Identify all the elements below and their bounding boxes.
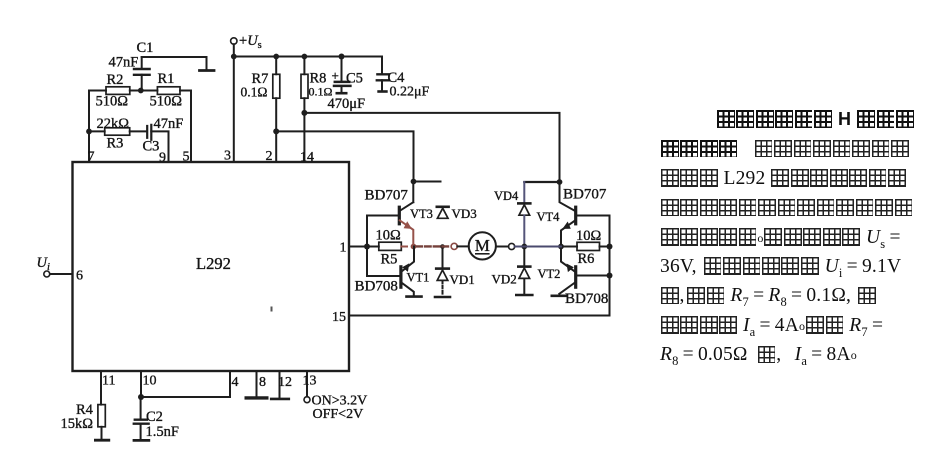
capacitor C1	[134, 57, 150, 91]
resistor R7	[273, 57, 280, 163]
svg-text:8: 8	[259, 375, 266, 390]
resistor R5	[367, 242, 407, 250]
TEXTBLOCK	[660, 109, 922, 138]
terminal +Us	[231, 38, 237, 44]
motor M	[469, 232, 496, 259]
svg-text:47nF: 47nF	[154, 116, 184, 132]
svg-text:BD708: BD708	[355, 279, 398, 295]
ground bar C1	[200, 69, 215, 72]
svg-text:BD708: BD708	[565, 291, 608, 307]
wire circle to motor	[457, 245, 468, 247]
wire pin6	[50, 273, 73, 275]
connector circle right of motor	[509, 243, 515, 249]
svg-text:7: 7	[88, 150, 95, 165]
transistor Q VT3 BD707	[399, 182, 413, 247]
svg-text:VD1: VD1	[450, 272, 475, 287]
svg-text:4: 4	[232, 375, 239, 390]
wire pin11	[100, 371, 102, 405]
svg-text:OFF<2V: OFF<2V	[313, 407, 364, 422]
ground bar VT2	[552, 294, 566, 297]
svg-text:C3: C3	[143, 139, 160, 155]
wire R7 node to left bridge rail	[276, 131, 413, 181]
svg-text:R1: R1	[158, 71, 175, 87]
wire pin5 vertical	[190, 91, 192, 163]
wire pin3 +Us vertical	[233, 44, 235, 162]
svg-text:VT1: VT1	[407, 271, 430, 285]
svg-text:0.1Ω: 0.1Ω	[241, 85, 268, 100]
svg-text:VT2: VT2	[538, 267, 561, 281]
node rail at pin3	[231, 54, 237, 60]
wire +Us top rail	[234, 57, 382, 75]
ground bar C4	[379, 90, 387, 93]
node R5 right emitter junction	[411, 244, 417, 250]
diode VD1	[436, 247, 449, 296]
wire pin1	[349, 246, 367, 248]
node VT4 VT2 emitter junction	[558, 244, 564, 250]
wire VT1 base	[367, 275, 401, 277]
svg-text:R2: R2	[107, 72, 124, 88]
svg-text:R5: R5	[381, 252, 398, 268]
speck artifact	[271, 307, 273, 312]
svg-text:L292: L292	[196, 254, 231, 273]
wire left base vertical	[366, 216, 368, 277]
svg-text:22kΩ: 22kΩ	[97, 116, 130, 132]
node rail at R7	[273, 54, 279, 60]
wire pin12 stub	[279, 371, 281, 398]
node R7 bottom	[273, 128, 279, 134]
svg-text:5: 5	[183, 150, 190, 165]
wire R2 R1 row	[89, 90, 191, 92]
wire pin10	[140, 371, 142, 397]
op-amp U1 L292 IC body	[73, 162, 350, 371]
node VT3 collector	[411, 179, 417, 185]
svg-text:12: 12	[278, 375, 292, 390]
terminal pin13 enable	[304, 397, 310, 403]
resistor R2	[106, 87, 130, 95]
ground bar C5	[337, 92, 346, 95]
node pin10 C2	[138, 394, 144, 400]
svg-text:2: 2	[266, 149, 273, 164]
node VT4 collector	[557, 179, 563, 185]
transistor Q VT2 BD708	[559, 247, 575, 294]
resistor R8	[301, 57, 308, 163]
ground bar R4	[95, 439, 108, 442]
svg-text:0.22μF: 0.22μF	[390, 85, 430, 100]
svg-text:BD707: BD707	[563, 187, 607, 203]
svg-text:VT3: VT3	[410, 207, 433, 221]
capacitor C5	[334, 57, 350, 93]
svg-text:M: M	[475, 236, 490, 255]
wire pin10 to pin4 loop	[141, 371, 230, 397]
capacitor C3	[147, 125, 151, 140]
svg-text:1.5nF: 1.5nF	[146, 424, 179, 440]
svg-text:10: 10	[143, 374, 157, 389]
svg-text:+: +	[332, 68, 339, 83]
wire C3 to pin9	[151, 131, 168, 162]
node R8 bottom	[301, 110, 307, 116]
diode VD4	[518, 182, 530, 247]
ground bar pin12	[271, 398, 289, 401]
node R6 right	[607, 244, 613, 250]
svg-text:47nF: 47nF	[109, 55, 139, 71]
svg-text:1: 1	[340, 241, 347, 256]
wire R3 row	[89, 130, 147, 132]
svg-text:11: 11	[102, 374, 115, 389]
svg-text:Ui: Ui	[37, 255, 50, 273]
ground bar VD2	[516, 294, 532, 297]
wire VD4 top to VT4 collector node	[524, 181, 559, 183]
svg-text:510Ω: 510Ω	[150, 94, 183, 110]
wire pin7 vertical	[88, 91, 90, 163]
terminal Ui	[44, 271, 50, 277]
ground bar C2	[134, 439, 149, 442]
svg-text:C1: C1	[137, 40, 154, 56]
svg-text:C5: C5	[346, 71, 363, 87]
wire circle to VD junction to emitters	[515, 246, 561, 248]
resistor R3	[105, 128, 130, 135]
svg-text:VT4: VT4	[537, 210, 561, 224]
svg-text:3: 3	[224, 149, 231, 164]
wire R8 node to right bridge rail	[304, 113, 559, 182]
svg-text:R3: R3	[107, 136, 124, 152]
wire motor line dashed left	[416, 245, 451, 247]
node rail at R8	[302, 54, 308, 60]
wire pin13 stub	[306, 371, 308, 397]
wire C1 to ground	[142, 57, 207, 70]
node R3 left junction	[86, 129, 92, 135]
svg-text:VD3: VD3	[452, 206, 477, 221]
svg-text:510Ω: 510Ω	[96, 94, 129, 110]
capacitor C4	[377, 74, 389, 90]
node R2-R1-C1 junction	[138, 88, 144, 94]
svg-text:10Ω: 10Ω	[376, 228, 402, 244]
svg-text:VD4: VD4	[494, 189, 519, 203]
ground bar VD1	[435, 296, 450, 299]
wire VT3 collector node to VD3	[414, 181, 441, 183]
svg-text:14: 14	[300, 150, 314, 165]
node VD4 VD2 motor-line junction	[521, 244, 527, 250]
transistor Q VT1 BD708	[401, 247, 414, 296]
resistor R6	[561, 242, 610, 250]
resistor R1	[157, 87, 180, 95]
node VT2 base	[607, 273, 613, 279]
wire pin8 stub	[256, 371, 258, 397]
diode VD2	[518, 247, 530, 294]
node VD1 top	[440, 244, 445, 249]
svg-text:9: 9	[159, 151, 166, 166]
svg-text:BD707: BD707	[365, 188, 409, 204]
svg-text:VD2: VD2	[492, 272, 517, 287]
connector circle left of motor	[451, 243, 457, 249]
ground bar pin8	[246, 396, 267, 399]
svg-text:+Us: +Us	[239, 33, 262, 51]
diode VD3	[437, 207, 449, 219]
wire motor to right circle	[496, 246, 508, 248]
svg-text:470μF: 470μF	[328, 96, 366, 112]
svg-text:13: 13	[303, 374, 317, 389]
svg-text:6: 6	[76, 269, 83, 284]
wire VT2 base	[576, 275, 610, 277]
ground bar VT1	[407, 295, 422, 298]
node pin1 base junction	[364, 244, 370, 250]
wire right base vertical	[609, 216, 611, 316]
svg-text:R6: R6	[578, 251, 595, 267]
wire VT3 base	[367, 215, 399, 217]
svg-text:C2: C2	[146, 409, 163, 425]
svg-text:15kΩ: 15kΩ	[61, 416, 94, 432]
transistor Q VT4 BD707	[560, 182, 576, 247]
node rail at C5	[339, 54, 345, 60]
resistor R4	[98, 405, 105, 439]
capacitor C2	[134, 397, 149, 439]
wire VT4 base	[576, 215, 610, 217]
wire pin15 rail	[349, 315, 610, 317]
svg-text:15: 15	[332, 310, 346, 325]
svg-text:10Ω: 10Ω	[576, 228, 602, 244]
